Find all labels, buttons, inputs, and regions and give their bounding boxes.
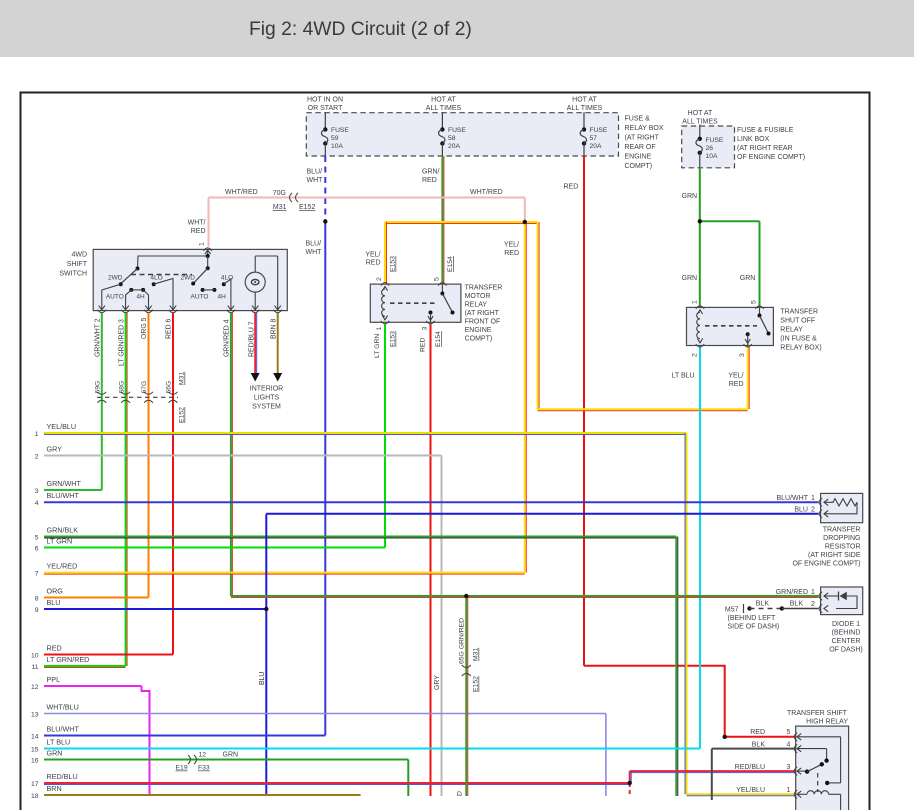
svg-text:2WD: 2WD xyxy=(108,275,123,282)
svg-text:2WD: 2WD xyxy=(181,275,196,282)
resistor pin 1 xyxy=(819,498,822,506)
svg-text:E152: E152 xyxy=(179,407,186,423)
svg-text:RELAY: RELAY xyxy=(465,302,488,309)
svg-text:2: 2 xyxy=(692,353,699,357)
svg-text:RED 6: RED 6 xyxy=(166,319,173,339)
header bar xyxy=(0,0,914,57)
svg-text:BLU: BLU xyxy=(794,507,808,514)
svg-text:3: 3 xyxy=(787,764,791,771)
svg-text:HOT AT: HOT AT xyxy=(688,110,713,117)
wire GRN/RED switch pin 4 xyxy=(230,313,232,596)
high relay coil xyxy=(797,791,801,797)
wire GRN/WHT switch pin 2 to row 3 xyxy=(101,313,103,490)
svg-text:18: 18 xyxy=(31,793,39,800)
svg-text:YEL/RED: YEL/RED xyxy=(47,561,78,570)
switch bank2 4LO contact to pin 4 xyxy=(222,282,226,286)
GRN vertical down xyxy=(407,760,409,797)
svg-text:68G: 68G xyxy=(118,381,125,394)
svg-text:SWITCH: SWITCH xyxy=(59,271,87,278)
svg-text:4: 4 xyxy=(35,500,39,507)
svg-text:GRY: GRY xyxy=(47,444,63,453)
svg-text:DROPPING: DROPPING xyxy=(823,535,860,542)
svg-text:GRN: GRN xyxy=(682,193,698,200)
svg-text:10: 10 xyxy=(31,652,39,659)
svg-text:GRN/RED: GRN/RED xyxy=(776,589,808,596)
svg-text:RELAY BOX): RELAY BOX) xyxy=(780,345,821,352)
wire GRN to transfer shut off relay pin 1 xyxy=(699,221,701,307)
shut off relay coil xyxy=(697,310,702,314)
svg-text:11: 11 xyxy=(31,664,38,671)
svg-text:BRN: BRN xyxy=(47,784,62,793)
svg-text:RED: RED xyxy=(750,729,765,736)
wire LT GRN/RED switch pin 3 to row 11 xyxy=(125,313,127,666)
transfer shut off relay box xyxy=(687,307,774,345)
motor relay pin 3 bottom xyxy=(426,321,434,324)
svg-text:BLK: BLK xyxy=(790,601,804,608)
svg-text:GRN/RED 4: GRN/RED 4 xyxy=(224,319,231,357)
RED/BLU to high relay pin 3 xyxy=(629,771,631,783)
svg-text:INTERIOR: INTERIOR xyxy=(250,386,283,393)
svg-text:LT GRN/RED 3: LT GRN/RED 3 xyxy=(118,319,125,366)
svg-text:GRY: GRY xyxy=(434,675,441,690)
svg-text:FUSE: FUSE xyxy=(331,127,349,134)
shut off relay linkage dashed xyxy=(705,325,757,327)
wire BLU/WHT solid down to row 14 xyxy=(324,222,326,736)
switch bottom pin arrows xyxy=(99,306,105,310)
svg-text:YEL/: YEL/ xyxy=(728,373,743,380)
shut off relay pin 3 bottom xyxy=(744,344,752,347)
svg-text:1: 1 xyxy=(35,431,39,438)
high relay pin 4 xyxy=(794,744,797,752)
svg-text:20A: 20A xyxy=(448,143,460,150)
svg-text:SHUT OFF: SHUT OFF xyxy=(780,318,815,325)
GRY vertical down xyxy=(441,456,443,797)
svg-text:(AT RIGHT REAR: (AT RIGHT REAR xyxy=(737,145,793,152)
svg-text:E152: E152 xyxy=(473,676,480,692)
connector E152/M31 on GRN/RED xyxy=(462,665,471,668)
svg-text:MOTOR: MOTOR xyxy=(465,293,491,300)
svg-text:COMPT): COMPT) xyxy=(465,336,493,343)
wire GRN/RED from fuse 58 to transfer motor relay pin 5 xyxy=(441,156,443,284)
svg-text:HOT IN ON: HOT IN ON xyxy=(307,97,343,104)
svg-text:4H: 4H xyxy=(218,294,227,301)
junction dot GRN/RED xyxy=(464,594,468,598)
svg-text:BLU/: BLU/ xyxy=(306,241,322,248)
svg-text:10A: 10A xyxy=(331,143,343,150)
wire GRN branch to transfer shut off relay pin 5 xyxy=(700,220,760,222)
transfer shift high relay box xyxy=(796,726,849,810)
svg-text:2: 2 xyxy=(811,507,815,514)
svg-text:FUSE: FUSE xyxy=(706,137,724,144)
connector M31/E152 on switch wires xyxy=(97,396,178,398)
svg-text:6: 6 xyxy=(35,545,39,552)
svg-text:RED: RED xyxy=(420,338,427,352)
switch pin 1 xyxy=(204,248,212,251)
svg-text:TRANSFER: TRANSFER xyxy=(823,527,861,534)
junction dot RED at high relay pin 5 xyxy=(723,735,727,739)
wire GRN/RED from switch pin 4 to diode xyxy=(231,595,819,597)
svg-text:SYSTEM: SYSTEM xyxy=(252,404,281,411)
switch bank1 4LO contact xyxy=(152,282,156,286)
svg-text:FUSE &: FUSE & xyxy=(625,116,651,123)
svg-text:YEL/: YEL/ xyxy=(365,252,380,259)
svg-text:10A: 10A xyxy=(706,153,718,160)
indicator lamp xyxy=(245,272,265,292)
svg-text:12: 12 xyxy=(31,684,39,691)
svg-text:ORG 5: ORG 5 xyxy=(141,317,148,339)
svg-text:GRN/: GRN/ xyxy=(422,169,440,176)
fuse 58 20A xyxy=(441,112,443,129)
svg-text:RED: RED xyxy=(504,250,519,257)
svg-text:67G: 67G xyxy=(141,381,148,394)
high relay internal wiring xyxy=(797,734,801,740)
diode pin 2 xyxy=(819,604,822,612)
motor relay linkage dashed xyxy=(390,302,438,304)
svg-text:OF DASH): OF DASH) xyxy=(829,647,862,654)
svg-text:ALL TIMES: ALL TIMES xyxy=(567,105,603,112)
svg-text:ALL TIMES: ALL TIMES xyxy=(682,119,718,126)
svg-text:66G: 66G xyxy=(166,381,173,394)
resistor pin 2 xyxy=(819,510,822,518)
svg-text:5: 5 xyxy=(787,729,791,736)
wire LT GRN motor relay pin 1 to row 6 xyxy=(384,324,386,548)
4WD shift switch box xyxy=(93,249,287,310)
svg-text:ORG: ORG xyxy=(47,586,64,595)
fuse 26 10A xyxy=(699,125,701,139)
svg-text:8: 8 xyxy=(35,595,39,602)
svg-text:1: 1 xyxy=(811,495,815,502)
lamp wiring xyxy=(254,256,256,272)
svg-text:(AT RIGHT: (AT RIGHT xyxy=(625,135,660,142)
svg-text:FRONT OF: FRONT OF xyxy=(465,319,501,326)
motor relay switch arm xyxy=(441,284,443,293)
svg-text:TRANSFER: TRANSFER xyxy=(780,309,818,316)
wire RED motor relay pin 3 down xyxy=(430,324,432,796)
fuse & relay box xyxy=(306,113,618,156)
svg-text:TRANSFER: TRANSFER xyxy=(465,285,503,292)
svg-text:26: 26 xyxy=(706,145,714,152)
svg-text:GRN: GRN xyxy=(223,752,239,759)
svg-text:WHT/: WHT/ xyxy=(188,220,206,227)
svg-text:OF ENGINE COMPT): OF ENGINE COMPT) xyxy=(737,154,805,161)
svg-text:20A: 20A xyxy=(590,143,602,150)
svg-text:4H: 4H xyxy=(136,294,145,301)
svg-text:LINK BOX: LINK BOX xyxy=(737,136,770,143)
svg-text:TRANSFER SHIFT: TRANSFER SHIFT xyxy=(787,710,848,717)
svg-text:RELAY: RELAY xyxy=(780,327,803,334)
svg-text:LT GRN: LT GRN xyxy=(374,334,381,358)
svg-text:CENTER: CENTER xyxy=(832,638,861,645)
high relay pin 1 xyxy=(794,790,797,798)
motor relay pin 5 top xyxy=(438,283,446,286)
svg-text:OR START: OR START xyxy=(308,105,343,112)
wire WHT/RED from 4WD shift switch pin 1 xyxy=(208,198,210,247)
svg-text:D: D xyxy=(457,791,464,796)
svg-text:13: 13 xyxy=(31,711,39,718)
wire BLK from high relay pin 4 xyxy=(712,748,796,750)
svg-text:1: 1 xyxy=(692,300,699,304)
svg-text:1: 1 xyxy=(787,787,791,794)
svg-text:3: 3 xyxy=(739,353,746,357)
switch bank1 2WD leg to pin 2 xyxy=(102,284,121,310)
svg-text:7: 7 xyxy=(35,570,39,577)
svg-text:RESISTOR: RESISTOR xyxy=(825,544,861,551)
svg-text:LT GRN/RED: LT GRN/RED xyxy=(47,655,90,664)
transfer dropping resistor box xyxy=(821,493,863,522)
svg-text:AUTO: AUTO xyxy=(106,294,124,301)
svg-text:RED: RED xyxy=(729,381,744,388)
svg-text:BLU/: BLU/ xyxy=(307,169,323,176)
svg-text:2: 2 xyxy=(811,601,815,608)
GRN/RED vertical down 65G xyxy=(465,596,467,796)
svg-text:RED: RED xyxy=(47,643,62,652)
svg-text:4LO: 4LO xyxy=(150,275,162,282)
diode pin 1 xyxy=(819,592,822,600)
svg-text:E152: E152 xyxy=(299,204,315,211)
svg-text:HOT AT: HOT AT xyxy=(572,97,597,104)
svg-text:5: 5 xyxy=(35,534,39,541)
svg-text:YEL/BLU: YEL/BLU xyxy=(47,422,77,431)
svg-text:GRN/WHT 2: GRN/WHT 2 xyxy=(95,318,102,357)
wire RED/BLU switch pin 7 to interior lights xyxy=(254,313,256,374)
motor relay pin 2 top xyxy=(381,283,389,286)
svg-text:58: 58 xyxy=(448,135,456,142)
svg-text:BLK: BLK xyxy=(756,601,770,608)
svg-text:(IN FUSE &: (IN FUSE & xyxy=(780,336,817,343)
svg-text:1: 1 xyxy=(376,327,383,331)
svg-text:2: 2 xyxy=(376,277,383,281)
GRN/BLK vertical down xyxy=(675,537,677,797)
svg-text:LT BLU: LT BLU xyxy=(672,373,695,380)
svg-text:GRN: GRN xyxy=(740,275,756,282)
svg-text:M57: M57 xyxy=(725,607,739,614)
svg-text:RED: RED xyxy=(422,177,437,184)
svg-text:(BEHIND: (BEHIND xyxy=(832,630,861,637)
svg-text:AUTO: AUTO xyxy=(191,294,209,301)
svg-text:Fig 2: 4WD Circuit (2 of 2): Fig 2: 4WD Circuit (2 of 2) xyxy=(249,19,472,40)
svg-text:15: 15 xyxy=(31,746,39,753)
wire BRN switch pin 8 to interior lights xyxy=(277,313,279,374)
svg-text:5: 5 xyxy=(433,277,440,281)
svg-text:BLU/WHT: BLU/WHT xyxy=(777,495,809,502)
svg-text:HOT AT: HOT AT xyxy=(431,97,456,104)
switch bank2 arm 2WD xyxy=(207,256,209,268)
svg-text:3: 3 xyxy=(35,488,39,495)
svg-text:GRN: GRN xyxy=(47,748,63,757)
wire RED switch pin 6 to row 10 xyxy=(172,313,174,655)
switch common wiring xyxy=(138,249,208,268)
svg-text:OF ENGINE COMPT): OF ENGINE COMPT) xyxy=(792,561,860,568)
wire YEL/RED to transfer shut off relay pin 3 xyxy=(537,222,539,409)
svg-text:RED: RED xyxy=(366,260,381,267)
junction dot on BLU/WHT wire xyxy=(323,219,327,223)
svg-text:(BEHIND LEFT: (BEHIND LEFT xyxy=(728,615,777,622)
high relay pin 3 xyxy=(794,767,797,775)
wire ORG switch pin 5 to row 8 xyxy=(148,313,150,598)
svg-text:SIDE OF DASH): SIDE OF DASH) xyxy=(728,624,780,631)
svg-text:WHT/RED: WHT/RED xyxy=(225,189,258,196)
svg-text:GRN/WHT: GRN/WHT xyxy=(47,479,82,488)
svg-text:WHT: WHT xyxy=(307,177,324,184)
svg-text:YEL/: YEL/ xyxy=(504,242,519,249)
svg-text:F33: F33 xyxy=(198,765,210,772)
svg-text:BRN 8: BRN 8 xyxy=(270,319,277,339)
svg-text:DIODE 1: DIODE 1 xyxy=(832,621,860,628)
svg-text:BLU: BLU xyxy=(259,672,266,685)
junction dot BLU xyxy=(264,607,268,611)
svg-text:E154: E154 xyxy=(447,256,454,272)
svg-text:GRN/BLK: GRN/BLK xyxy=(47,525,79,534)
switch bank2 AUTO 4H contacts xyxy=(201,288,205,292)
motor relay coil xyxy=(382,287,387,291)
shut off relay pin 1 top xyxy=(696,306,704,309)
WHT/BLU vertical down xyxy=(605,714,607,797)
svg-text:2: 2 xyxy=(35,453,39,460)
junction dot RED/BLU xyxy=(628,781,632,785)
switch pin arcs bottom xyxy=(98,310,106,313)
svg-text:12: 12 xyxy=(199,752,207,759)
diode 1 box xyxy=(821,587,863,615)
svg-text:E153: E153 xyxy=(390,331,397,347)
motor relay pin 1 bottom xyxy=(381,321,389,324)
svg-text:1: 1 xyxy=(811,589,815,596)
svg-text:E154: E154 xyxy=(435,331,442,347)
svg-text:16: 16 xyxy=(31,757,39,764)
switch bank1 4H contact xyxy=(141,288,145,292)
svg-text:4WD: 4WD xyxy=(71,252,87,259)
svg-text:BLK: BLK xyxy=(752,741,766,748)
transfer motor relay box xyxy=(370,284,461,322)
motor relay pin 3 contact xyxy=(429,311,433,315)
svg-text:COMPT): COMPT) xyxy=(625,163,653,170)
svg-text:HIGH RELAY: HIGH RELAY xyxy=(806,719,848,726)
svg-text:LT BLU: LT BLU xyxy=(47,737,71,746)
svg-text:BLU: BLU xyxy=(47,598,61,607)
svg-text:ENGINE: ENGINE xyxy=(465,327,492,334)
svg-text:1: 1 xyxy=(199,242,206,246)
svg-text:LIGHTS: LIGHTS xyxy=(254,395,280,402)
switch bank1 AUTO contact xyxy=(129,288,133,292)
row 1 YEL/BLU vertical to high relay pin 1 xyxy=(686,433,688,794)
wire YEL/RED to transfer motor relay pin 2 xyxy=(385,221,538,223)
svg-text:WHT/BLU: WHT/BLU xyxy=(47,702,79,711)
shut off relay pin 2 bottom xyxy=(696,344,704,347)
diode element xyxy=(824,593,828,599)
switch bank1 arm 2WD xyxy=(121,269,138,284)
svg-text:E153: E153 xyxy=(390,256,397,272)
junction dot GRN xyxy=(698,219,702,223)
svg-text:BLU/WHT: BLU/WHT xyxy=(47,491,80,500)
wire BLU/WHT dashed from fuse 59 xyxy=(324,156,326,222)
svg-text:BLU/WHT: BLU/WHT xyxy=(47,724,80,733)
svg-text:14: 14 xyxy=(31,733,39,740)
switch linkage dashed xyxy=(131,274,192,276)
svg-text:(AT RIGHT SIDE: (AT RIGHT SIDE xyxy=(808,552,861,559)
svg-text:5: 5 xyxy=(751,300,758,304)
svg-text:RED: RED xyxy=(191,228,206,235)
svg-text:ENGINE: ENGINE xyxy=(625,154,652,161)
svg-text:4: 4 xyxy=(787,741,791,748)
svg-text:57: 57 xyxy=(590,135,598,142)
svg-text:70G: 70G xyxy=(273,190,286,197)
svg-text:LT GRN: LT GRN xyxy=(47,536,73,545)
svg-text:FUSE & FUSIBLE: FUSE & FUSIBLE xyxy=(737,127,794,134)
shut off relay pin 3 contact xyxy=(746,332,750,336)
svg-text:RED: RED xyxy=(564,184,579,191)
shut off relay pin 5 top xyxy=(755,306,763,309)
wire LT BLU from shut off relay pin 2 to row 15 xyxy=(699,346,701,749)
svg-text:(AT RIGHT: (AT RIGHT xyxy=(465,310,500,317)
svg-text:RED/BLU: RED/BLU xyxy=(47,772,78,781)
svg-text:M31: M31 xyxy=(179,372,186,385)
fuse 59 10A xyxy=(324,112,326,129)
connector E19/F33 on row 16 xyxy=(188,755,191,764)
svg-text:RED/BLU: RED/BLU xyxy=(735,764,765,771)
svg-text:PPL: PPL xyxy=(47,675,61,684)
svg-text:YEL/BLU: YEL/BLU xyxy=(736,787,765,794)
fuse 57 20A xyxy=(583,112,585,129)
connector E152/M31 70G on WHT/RED wire xyxy=(290,193,293,202)
shut off relay switch arm xyxy=(759,307,761,315)
svg-text:ALL TIMES: ALL TIMES xyxy=(426,105,462,112)
svg-text:GRN: GRN xyxy=(682,275,698,282)
svg-text:M31: M31 xyxy=(473,648,480,661)
high relay pin 5 xyxy=(794,733,797,741)
wire GRN from fuse 26 xyxy=(699,168,701,222)
svg-text:FUSE: FUSE xyxy=(448,127,466,134)
svg-text:E19: E19 xyxy=(176,765,188,772)
svg-text:WHT/RED: WHT/RED xyxy=(470,189,503,196)
svg-text:REAR OF: REAR OF xyxy=(625,144,656,151)
svg-text:17: 17 xyxy=(31,781,39,788)
svg-text:RELAY BOX: RELAY BOX xyxy=(625,125,664,132)
svg-text:WHT: WHT xyxy=(306,249,323,256)
resistor element xyxy=(824,499,828,505)
svg-text:9: 9 xyxy=(35,607,39,614)
junction dot WHT/RED-YEL/RED xyxy=(523,220,527,224)
svg-text:69G: 69G xyxy=(95,381,102,394)
svg-text:SHIFT: SHIFT xyxy=(67,261,88,268)
wire YEL/RED down to row 7 xyxy=(524,222,526,573)
svg-text:FUSE: FUSE xyxy=(590,127,608,134)
BLU vertical and branch to dropping resistor pin 2 xyxy=(265,514,267,796)
svg-text:3: 3 xyxy=(422,327,429,331)
fuse & fusible link box xyxy=(682,126,735,168)
svg-text:M31: M31 xyxy=(273,204,287,211)
svg-text:59: 59 xyxy=(331,135,339,142)
wire RED from fuse 57 xyxy=(583,156,585,666)
svg-text:65G GRN/RED: 65G GRN/RED xyxy=(459,618,466,664)
interior lights arrows xyxy=(251,373,260,382)
